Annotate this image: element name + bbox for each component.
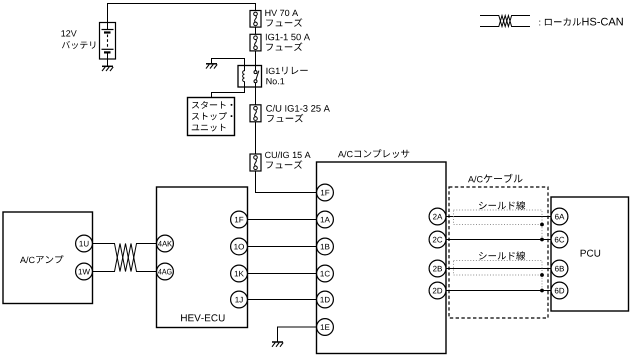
shield 1 (dotted)	[454, 210, 543, 225]
twisted pair amp to HEV-ECU	[93, 244, 157, 272]
wire 2B-6B	[446, 268, 551, 270]
pin 1U	[76, 235, 93, 252]
ground (battery)	[102, 65, 113, 67]
pin 6A	[551, 208, 568, 225]
pin 1O	[231, 238, 248, 255]
junction dot shield1-corner	[540, 223, 544, 227]
pin 1K	[231, 265, 248, 282]
pin 6C	[551, 231, 568, 248]
wire battery to HV fuse	[108, 4, 256, 31]
pin 6D	[551, 282, 568, 299]
fuse IG1-1 50 A	[250, 34, 261, 51]
fuse CU/IG 15 A	[250, 154, 261, 171]
pin 1W	[76, 263, 93, 280]
pin 1J	[231, 291, 248, 308]
pin 1B	[317, 238, 334, 255]
wire 2A-6A	[446, 216, 551, 218]
pin 1E	[317, 319, 334, 336]
wire	[255, 51, 257, 66]
start-stop unit	[188, 98, 235, 136]
pin 1F (HEV-ECU)	[231, 211, 248, 228]
pin 2A	[429, 208, 446, 225]
wire 2C-6C	[446, 239, 551, 241]
junction dot shield2-corner	[540, 273, 544, 277]
HEV-ECU box	[157, 187, 248, 328]
pin 4AG	[157, 263, 174, 280]
PCU box	[551, 197, 629, 311]
pin 2D	[429, 282, 446, 299]
label 12V battery	[61, 30, 76, 36]
pin 1D	[317, 291, 334, 308]
relay IG1 No.1	[238, 66, 262, 88]
wire 1E to ground	[278, 327, 317, 342]
pin 4AK	[157, 235, 174, 252]
pin 1F (compressor)	[317, 184, 334, 201]
ground (relay coil)	[206, 63, 217, 65]
wire 1F-1A	[248, 219, 317, 221]
wire coil to ground	[212, 59, 245, 66]
wire 1J-1D	[248, 299, 317, 301]
pin 2B	[429, 260, 446, 277]
wire 1O-1B	[248, 246, 317, 248]
legend local HS-CAN twisted pair	[480, 16, 530, 27]
fuse HV 70 A	[250, 11, 261, 28]
A/C amp box	[3, 212, 93, 304]
ground (compressor 1E)	[272, 341, 283, 343]
relay coil	[243, 66, 245, 88]
A/C cable dashed box	[449, 187, 548, 318]
wire	[255, 122, 257, 154]
wire	[255, 87, 257, 105]
pin 1A	[317, 211, 334, 228]
wire 1K-1C	[248, 273, 317, 275]
wire	[255, 27, 257, 34]
wire coil to start-stop unit	[212, 87, 245, 98]
shield 2 (dotted)	[454, 261, 543, 276]
battery 12V	[100, 23, 116, 60]
wire fuse to compressor pin 1F	[256, 171, 317, 193]
pin 1C	[317, 265, 334, 282]
junction dot on wire 2D-6D	[540, 289, 544, 293]
pin 6B	[551, 260, 568, 277]
pin 2C	[429, 231, 446, 248]
fuse C/U IG1-3 25 A	[250, 105, 261, 122]
A/C compressor box	[317, 162, 447, 354]
junction dot on wire 2C-6C	[540, 238, 544, 242]
wire 2D-6D	[446, 290, 551, 292]
